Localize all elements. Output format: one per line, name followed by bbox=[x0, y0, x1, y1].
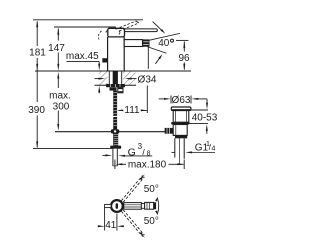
40° lower arc arrow bbox=[155, 54, 162, 64]
lever cap bbox=[106, 28, 125, 37]
label max.180 bbox=[128, 159, 167, 170]
washer block bbox=[110, 87, 117, 90]
svg-text:390: 390 bbox=[28, 105, 45, 116]
svg-text:147: 147 bbox=[48, 43, 65, 54]
dimension Ø34 arrows bbox=[95, 78, 138, 80]
40° upper ray bbox=[150, 33, 181, 40]
label G1 1/4 bbox=[195, 139, 216, 154]
dashed lever position lower bbox=[121, 210, 144, 238]
top view slot bbox=[116, 203, 118, 209]
svg-text:4: 4 bbox=[212, 146, 216, 153]
label 41 bbox=[105, 220, 117, 231]
svg-text:max.180: max.180 bbox=[128, 159, 167, 170]
svg-text:8: 8 bbox=[147, 151, 151, 158]
deck top line bbox=[35, 70, 191, 72]
svg-text:Ø63: Ø63 bbox=[172, 95, 191, 106]
top view rod tab bbox=[105, 204, 112, 207]
hose nipple bbox=[118, 87, 123, 92]
dashed lever position upper bbox=[121, 174, 144, 202]
dimension 40-53 bbox=[189, 99, 208, 134]
svg-text:50°: 50° bbox=[144, 184, 159, 195]
label max.45 bbox=[66, 51, 99, 62]
drain valve lower body bbox=[173, 125, 187, 136]
dimension Ø63 bbox=[159, 96, 207, 104]
40° upper arc arrow bbox=[153, 22, 166, 34]
svg-text:max.: max. bbox=[49, 90, 71, 101]
dimension line 147/max.300 (vertical) bbox=[57, 28, 59, 131]
raised lever (dashed) bbox=[116, 21, 139, 31]
pop-up rod knob on body bbox=[102, 58, 108, 62]
dimension 41 bbox=[98, 208, 124, 231]
label 181 bbox=[29, 47, 47, 59]
supply pipe (threaded) bbox=[113, 91, 118, 130]
label 40° bbox=[158, 38, 173, 49]
top view faucet circle bbox=[111, 200, 123, 212]
label 50° lower bbox=[144, 216, 159, 227]
dimension 96 (vertical) bbox=[176, 40, 189, 70]
rod attachment knob bbox=[165, 128, 174, 134]
svg-text:96: 96 bbox=[178, 53, 190, 64]
dimension 111 bbox=[117, 86, 147, 114]
top view lever neck bbox=[141, 204, 144, 209]
label 390 bbox=[28, 104, 46, 116]
lever arm (horizontal) bbox=[125, 29, 158, 32]
locknut below deck bbox=[106, 84, 125, 87]
label max.300 bbox=[48, 90, 73, 113]
dimension max.45 leader+arrows bbox=[67, 61, 101, 93]
dimension arrows hose G3/8 bbox=[103, 154, 153, 156]
deck hole whiteout bbox=[108, 71, 124, 87]
drain valve bottom cap bbox=[175, 135, 187, 138]
label 96 bbox=[177, 53, 191, 64]
deck hatch pattern bbox=[99, 71, 136, 85]
drain tailpipe G1 1/4 bbox=[175, 138, 184, 164]
dimension max.180 bbox=[115, 160, 184, 170]
rotation arc at grip bbox=[155, 197, 159, 215]
top view lever shaft bbox=[124, 203, 142, 210]
label Ø34 bbox=[137, 74, 159, 85]
rod junction bbox=[111, 129, 119, 133]
deck bottom line bbox=[95, 84, 137, 86]
svg-text:G: G bbox=[128, 146, 136, 158]
label Ø63 bbox=[172, 95, 191, 106]
label G3/8 bbox=[128, 142, 151, 158]
aerator (mousseur) bbox=[143, 39, 150, 46]
dimension line 181/390 (vertical) bbox=[36, 20, 38, 148]
drain valve flange bbox=[171, 107, 191, 110]
svg-text:max.45: max.45 bbox=[66, 51, 99, 62]
threaded shank through deck bbox=[109, 71, 121, 85]
spout bbox=[124, 40, 142, 47]
dashed arc left of cap bbox=[98, 31, 101, 40]
label 111 bbox=[123, 105, 141, 116]
top view grip end cap bbox=[154, 202, 157, 209]
extension line: top of lever cap (147 level) bbox=[54, 26, 116, 28]
svg-text:G: G bbox=[195, 143, 203, 154]
G3/8 nut bbox=[110, 146, 121, 149]
svg-text:181: 181 bbox=[29, 47, 46, 58]
label 40-53 bbox=[192, 113, 218, 124]
svg-text:40: 40 bbox=[158, 38, 170, 49]
drain valve upper body bbox=[173, 111, 189, 123]
faucet body sides bbox=[108, 37, 125, 71]
svg-text:111: 111 bbox=[124, 105, 140, 116]
svg-text:40-53: 40-53 bbox=[192, 113, 218, 124]
extension line: hose end (390 bottom) bbox=[33, 147, 113, 149]
label 147 bbox=[48, 42, 66, 54]
threaded connector below junction bbox=[113, 134, 118, 146]
svg-text:Ø34: Ø34 bbox=[138, 74, 157, 85]
drain valve collar bbox=[171, 122, 189, 125]
top view lever grip bbox=[145, 202, 154, 209]
pop-up lift rod (horizontal) bbox=[55, 131, 165, 133]
flexible hose bbox=[113, 149, 117, 166]
svg-text:300: 300 bbox=[53, 101, 70, 112]
svg-text:50°: 50° bbox=[144, 216, 159, 227]
40° lower ray bbox=[148, 47, 167, 53]
extension line: top of raised lever (level of 181/390) bbox=[33, 19, 143, 21]
G1 1/4 leader arrow bbox=[172, 151, 216, 153]
svg-text:41: 41 bbox=[105, 220, 117, 231]
label 50° upper bbox=[144, 184, 159, 195]
water stream line bbox=[147, 47, 149, 69]
